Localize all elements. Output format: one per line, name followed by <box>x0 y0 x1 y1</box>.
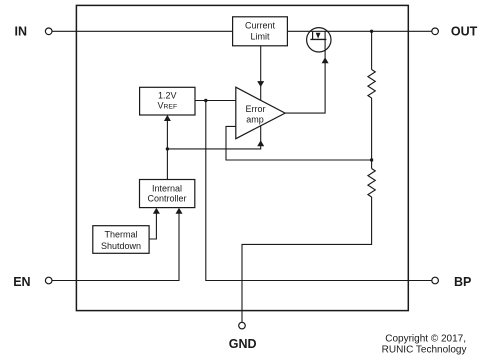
IC body outline <box>76 5 408 310</box>
wire Vref to Error amp input <box>195 100 236 102</box>
pin EN terminal <box>45 277 52 284</box>
block Thermal Shutdown <box>93 226 149 254</box>
node Vref output junction <box>204 99 207 102</box>
svg-text:GND: GND <box>229 337 257 351</box>
op-amp Error amp <box>236 87 285 139</box>
svg-text:1.2V: 1.2V <box>158 91 177 101</box>
svg-text:Shutdown: Shutdown <box>101 241 141 251</box>
wire bias junction to Vref <box>166 116 168 180</box>
wire Current Limit to OUT <box>287 30 431 32</box>
block 1.2V Vref <box>140 87 195 115</box>
svg-text:OUT: OUT <box>451 24 478 38</box>
transistor Q1 pass PMOS <box>307 28 331 52</box>
arrow into Vref bottom <box>164 115 171 121</box>
wire IN to Current Limit <box>52 30 233 32</box>
svg-text:Error: Error <box>246 104 266 114</box>
wire feedback to Error amp inverting input <box>226 126 372 160</box>
wire Thermal Shutdown to Internal Controller <box>149 214 156 240</box>
svg-text:Controller: Controller <box>147 194 186 204</box>
svg-text:IN: IN <box>15 24 28 38</box>
wire Current Limit to Error amp <box>260 46 262 100</box>
arrow into Error amp bottom <box>257 140 264 146</box>
wire GND lead <box>242 197 372 322</box>
svg-text:amp: amp <box>246 115 264 125</box>
pin BP terminal <box>432 277 439 284</box>
svg-text:Current: Current <box>245 20 276 30</box>
arrow into transistor gate <box>322 57 329 63</box>
wire OUT node to resistor R1 <box>371 31 373 69</box>
svg-text:BP: BP <box>454 275 471 289</box>
svg-text:Limit: Limit <box>250 32 270 42</box>
pin OUT terminal <box>432 28 439 35</box>
arrow into Error amp top <box>257 81 264 87</box>
svg-text:Internal: Internal <box>152 183 182 193</box>
node feedback junction <box>370 158 373 161</box>
block Internal Controller <box>140 180 195 208</box>
node OUT junction <box>370 30 373 33</box>
svg-text:Copyright © 2017,: Copyright © 2017, <box>385 333 466 344</box>
wire Error amp output to pass transistor gate <box>285 31 325 113</box>
resistor R2 <box>368 169 375 198</box>
wire bias junction to Error amp bottom <box>167 125 260 149</box>
wire Vref junction to BP <box>206 101 432 281</box>
pin GND terminal <box>239 322 246 329</box>
svg-text:EN: EN <box>13 275 30 289</box>
wire R1 to feedback node <box>371 98 373 169</box>
arrow EN into Internal Controller <box>176 208 183 214</box>
block Current Limit <box>233 17 288 46</box>
svg-text:Thermal: Thermal <box>104 230 137 240</box>
resistor R1 <box>368 70 375 99</box>
arrow Thermal Shutdown into Internal Controller <box>153 208 160 214</box>
svg-text:RUNIC Technology: RUNIC Technology <box>382 345 467 356</box>
pin IN terminal <box>45 28 52 35</box>
node bias junction <box>166 147 169 150</box>
wire EN to Internal Controller <box>52 214 179 281</box>
